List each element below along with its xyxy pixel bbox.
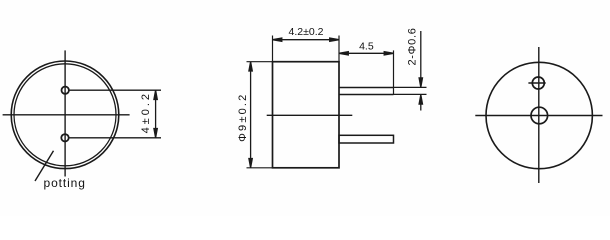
svg-text:Φ9±0.2: Φ9±0.2: [237, 92, 249, 141]
potting leader line: [35, 151, 54, 181]
lower hole circle: [531, 107, 548, 124]
upper pin bottom line: [339, 94, 394, 96]
dimension Φ9±0.2: [247, 62, 273, 168]
svg-text:4.5: 4.5: [359, 41, 374, 53]
svg-text:2-Φ0.6: 2-Φ0.6: [407, 27, 419, 65]
dimension line 4±0.2: [154, 90, 157, 138]
horizontal centerline: [267, 114, 353, 116]
vertical centerline: [538, 47, 540, 183]
dimension 4.5: [339, 50, 394, 95]
upper pin circle: [61, 87, 68, 94]
horizontal centerline: [3, 114, 130, 116]
dimension 4.2±0.2: [273, 36, 340, 62]
svg-text:4±0.2: 4±0.2: [140, 91, 152, 133]
lower pin rectangle: [339, 135, 394, 143]
upper pin extension line: [69, 89, 161, 91]
upper hole circle: [532, 77, 544, 89]
circle: [486, 62, 592, 168]
horizontal centerline: [475, 115, 602, 117]
lower pin extension line: [69, 137, 161, 139]
dimension 2-Φ0.6: [394, 31, 427, 111]
svg-text:potting: potting: [44, 176, 86, 190]
lower pin circle: [61, 134, 68, 141]
upper pin top line: [339, 87, 394, 89]
inner circle: [14, 64, 116, 166]
svg-text:4.2±0.2: 4.2±0.2: [289, 26, 324, 38]
body rectangle: [273, 62, 340, 168]
vertical centerline: [64, 50, 66, 176]
upper hole horizontal tick: [528, 82, 545, 84]
outer circle: [11, 61, 119, 169]
